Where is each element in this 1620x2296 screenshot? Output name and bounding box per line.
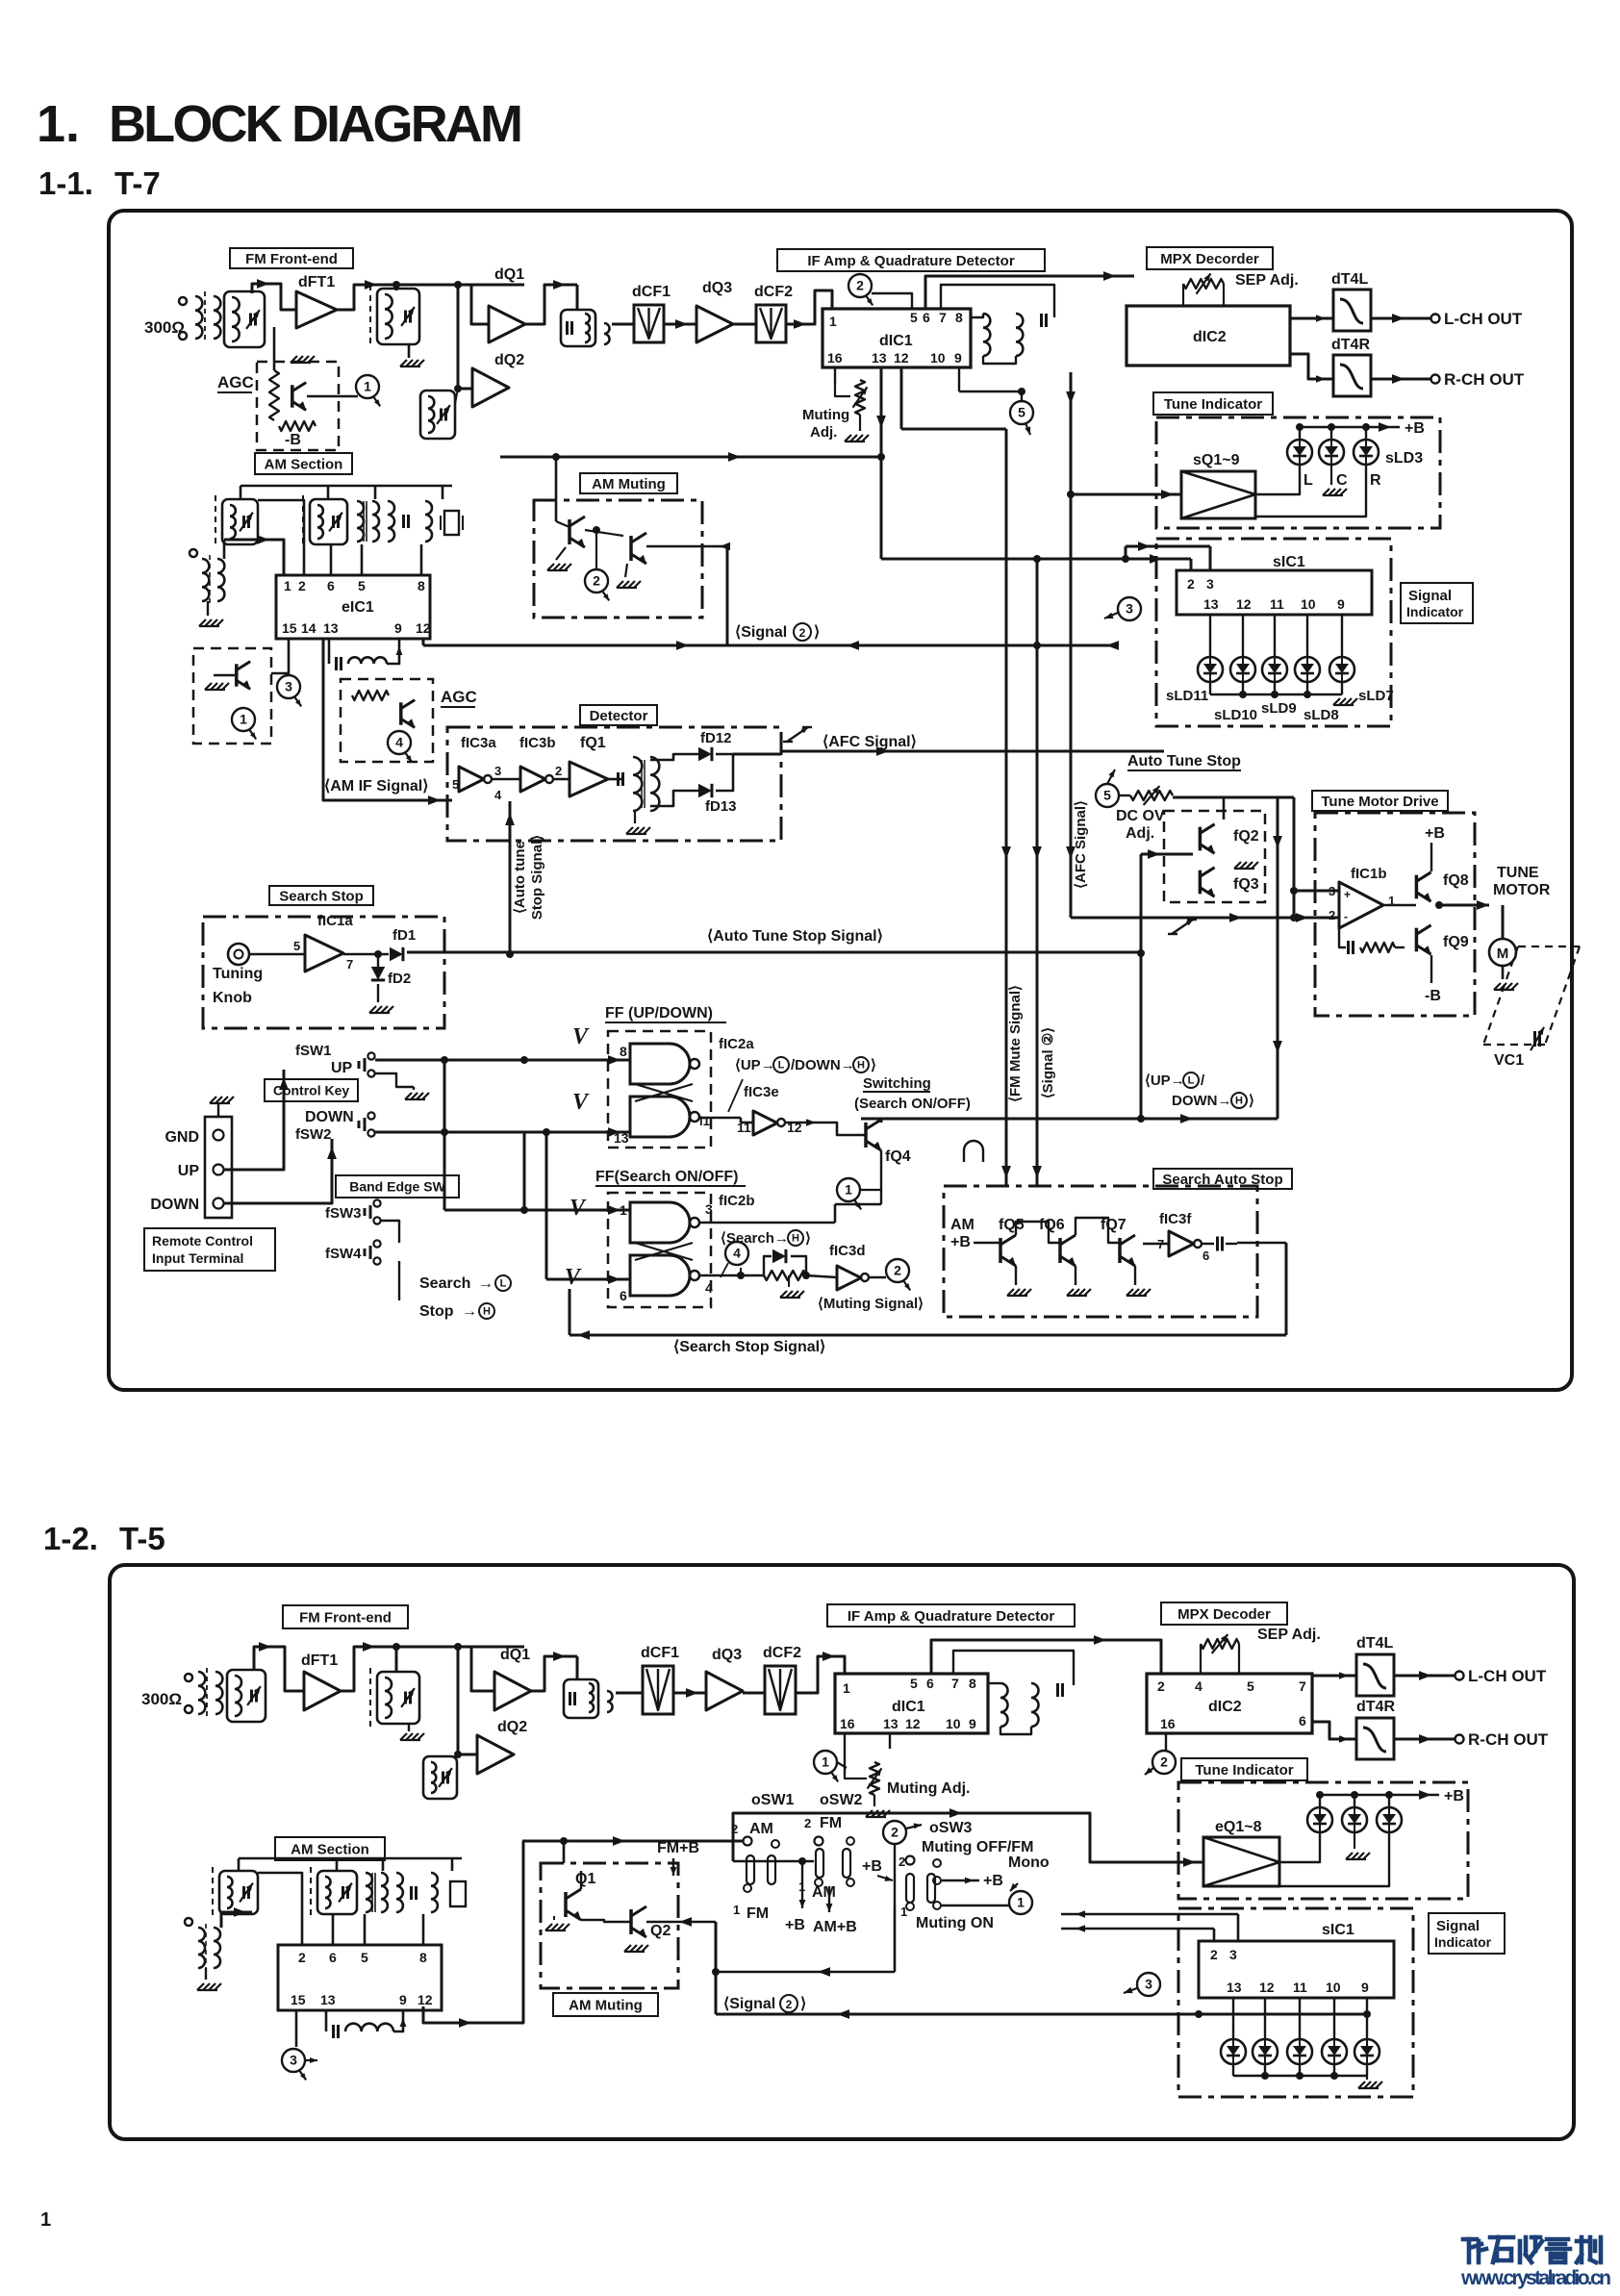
svg-text:13: 13	[1227, 1980, 1242, 1995]
svg-text:→: →	[478, 1275, 494, 1292]
svg-text:2: 2	[1329, 908, 1335, 922]
svg-text:AM Section: AM Section	[265, 456, 343, 472]
svg-text:8: 8	[969, 1676, 976, 1691]
svg-text:dFT1: dFT1	[298, 274, 335, 290]
svg-text:⟨Search Stop Signal⟩: ⟨Search Stop Signal⟩	[673, 1339, 825, 1355]
svg-text:6: 6	[327, 578, 335, 593]
svg-text:2: 2	[899, 1854, 905, 1869]
svg-text:9: 9	[954, 350, 962, 366]
svg-text:1: 1	[620, 1202, 627, 1218]
svg-text:Q1: Q1	[575, 1871, 595, 1887]
svg-text:13: 13	[320, 1992, 336, 2007]
svg-text:dQ3: dQ3	[712, 1647, 742, 1663]
svg-text:11: 11	[737, 1120, 751, 1135]
svg-text:13: 13	[872, 350, 887, 366]
svg-text:15: 15	[282, 620, 297, 636]
svg-text:⟨Signal: ⟨Signal	[735, 624, 787, 641]
svg-text:Search Stop: Search Stop	[279, 888, 364, 904]
svg-text:→: →	[462, 1303, 477, 1320]
svg-text:R: R	[1370, 472, 1381, 489]
svg-text:dQ3: dQ3	[702, 280, 732, 296]
svg-text:GND: GND	[165, 1129, 199, 1146]
svg-text:SEP Adj.: SEP Adj.	[1257, 1627, 1321, 1643]
svg-text:3: 3	[494, 764, 501, 778]
svg-text:⟨Muting Signal⟩: ⟨Muting Signal⟩	[818, 1296, 924, 1312]
svg-text:H: H	[792, 1233, 799, 1245]
svg-text:dIC1: dIC1	[879, 333, 913, 349]
svg-text:dFT1: dFT1	[301, 1653, 338, 1669]
svg-text:sLD3: sLD3	[1385, 450, 1423, 467]
svg-text:fQ9: fQ9	[1443, 934, 1469, 950]
svg-text:12: 12	[905, 1716, 921, 1731]
svg-text:FM Front-end: FM Front-end	[245, 251, 338, 267]
svg-text:fQ3: fQ3	[1233, 876, 1259, 893]
svg-text:2: 2	[804, 1816, 811, 1830]
svg-text:H: H	[1235, 1096, 1243, 1107]
svg-text:5: 5	[361, 1950, 368, 1965]
svg-text:Signal: Signal	[1408, 588, 1452, 604]
svg-text:AGC: AGC	[217, 373, 254, 391]
svg-text:L: L	[1304, 472, 1313, 489]
svg-text:6: 6	[620, 1288, 627, 1303]
svg-text:6: 6	[329, 1950, 337, 1965]
svg-text:12: 12	[418, 1992, 433, 2007]
svg-text:V: V	[572, 1024, 590, 1049]
svg-text:fQ1: fQ1	[580, 735, 606, 751]
svg-text:DC OV: DC OV	[1116, 808, 1165, 824]
svg-text:IF Amp & Quadrature Detector: IF Amp & Quadrature Detector	[848, 1608, 1054, 1625]
svg-text:UP: UP	[331, 1060, 353, 1076]
svg-text:sLD9: sLD9	[1261, 700, 1297, 717]
svg-text:Remote Control: Remote Control	[152, 1233, 253, 1249]
svg-text:13: 13	[614, 1130, 629, 1146]
svg-text:H: H	[857, 1060, 865, 1072]
svg-text:8: 8	[620, 1044, 627, 1059]
svg-text:AM: AM	[749, 1821, 773, 1837]
svg-text:dT4R: dT4R	[1331, 337, 1370, 353]
svg-text:Auto Tune Stop: Auto Tune Stop	[1127, 753, 1241, 770]
svg-text:fIC3f: fIC3f	[1159, 1211, 1192, 1227]
svg-text:5: 5	[910, 1676, 918, 1691]
svg-text:FF(Search ON/OFF): FF(Search ON/OFF)	[595, 1169, 738, 1185]
svg-text:3: 3	[705, 1201, 713, 1217]
svg-text:2: 2	[298, 1950, 306, 1965]
svg-text:12: 12	[1236, 596, 1252, 612]
svg-text:10: 10	[930, 350, 946, 366]
svg-text:2: 2	[298, 578, 306, 593]
svg-text:AM Section: AM Section	[291, 1841, 369, 1857]
svg-text:13: 13	[883, 1716, 899, 1731]
svg-text:Knob: Knob	[213, 990, 252, 1006]
svg-text:4: 4	[705, 1280, 713, 1296]
svg-text:5: 5	[452, 777, 459, 792]
svg-text:1-2.: 1-2.	[43, 1521, 98, 1556]
svg-text:Q2: Q2	[650, 1923, 671, 1939]
svg-text:DOWN: DOWN	[150, 1197, 199, 1213]
svg-text:MOTOR: MOTOR	[1493, 882, 1551, 898]
svg-text:2: 2	[786, 1998, 793, 2011]
svg-text:dCF1: dCF1	[632, 284, 671, 300]
svg-text:1: 1	[829, 314, 837, 329]
svg-text:fQ4: fQ4	[885, 1148, 911, 1165]
svg-text:sLD7: sLD7	[1358, 688, 1394, 704]
svg-text:10: 10	[946, 1716, 961, 1731]
svg-text:Adj.: Adj.	[1126, 825, 1154, 842]
svg-text:dCF2: dCF2	[754, 284, 793, 300]
svg-text:⟨AFC Signal⟩: ⟨AFC Signal⟩	[823, 734, 917, 750]
svg-text:5: 5	[1103, 788, 1111, 803]
svg-text:IF Amp & Quadrature Detector: IF Amp & Quadrature Detector	[807, 253, 1014, 269]
svg-text:dIC2: dIC2	[1193, 329, 1227, 345]
svg-text:1-1.: 1-1.	[38, 165, 93, 201]
svg-text:+B: +B	[983, 1873, 1003, 1889]
svg-text:T-5: T-5	[119, 1521, 165, 1556]
svg-text:5: 5	[1018, 405, 1025, 420]
svg-text:5: 5	[1247, 1678, 1254, 1694]
svg-text:R-CH OUT: R-CH OUT	[1468, 1730, 1549, 1749]
svg-text:sIC1: sIC1	[1273, 554, 1305, 570]
svg-text:2: 2	[894, 1263, 901, 1278]
svg-text:7: 7	[951, 1676, 959, 1691]
svg-text:4: 4	[1195, 1678, 1202, 1694]
svg-text:3: 3	[1145, 1977, 1152, 1992]
svg-text:5: 5	[293, 939, 300, 953]
svg-text:L: L	[500, 1278, 507, 1290]
svg-text:⟨FM Mute Signal⟩: ⟨FM Mute Signal⟩	[1007, 985, 1024, 1102]
svg-text:fQ5: fQ5	[999, 1217, 1025, 1233]
svg-text:FM+B: FM+B	[657, 1840, 699, 1856]
svg-text:9: 9	[394, 620, 402, 636]
svg-text:dQ1: dQ1	[494, 266, 524, 283]
svg-text:5: 5	[910, 310, 918, 325]
svg-text:⟩: ⟩	[871, 1057, 876, 1073]
svg-text:L: L	[778, 1060, 785, 1072]
svg-text:fSW2: fSW2	[295, 1126, 332, 1143]
svg-text:Tune Motor Drive: Tune Motor Drive	[1321, 794, 1438, 810]
svg-text:1: 1	[822, 1754, 829, 1770]
svg-text:3: 3	[1206, 576, 1214, 592]
svg-text:AM+B: AM+B	[813, 1919, 857, 1935]
svg-text:1.: 1.	[37, 95, 80, 153]
svg-text:⟩: ⟩	[805, 1230, 811, 1247]
svg-text:Stop: Stop	[419, 1303, 454, 1320]
svg-text:6: 6	[923, 310, 930, 325]
svg-text:MPX Decoder: MPX Decoder	[1177, 1606, 1271, 1623]
svg-text:fIC3a: fIC3a	[461, 735, 496, 751]
svg-text:Input Terminal: Input Terminal	[152, 1250, 243, 1266]
svg-text:dIC2: dIC2	[1208, 1699, 1242, 1715]
svg-text:+B: +B	[785, 1917, 805, 1933]
svg-text:Muting OFF/FM: Muting OFF/FM	[922, 1839, 1033, 1855]
svg-text:Search Auto Stop: Search Auto Stop	[1162, 1172, 1282, 1188]
svg-text:2: 2	[1187, 576, 1195, 592]
svg-text:4: 4	[733, 1246, 741, 1261]
svg-text:V: V	[572, 1090, 590, 1115]
svg-text:Mono: Mono	[1008, 1854, 1050, 1871]
svg-text:V: V	[565, 1265, 582, 1290]
svg-text:R-CH OUT: R-CH OUT	[1444, 370, 1525, 389]
svg-text:(Search ON/OFF): (Search ON/OFF)	[854, 1096, 971, 1112]
svg-text:dIC1: dIC1	[892, 1699, 925, 1715]
svg-text:7: 7	[1299, 1678, 1306, 1694]
svg-text:2: 2	[731, 1822, 738, 1836]
svg-text:1: 1	[1017, 1895, 1025, 1910]
svg-text:fIC2b: fIC2b	[719, 1193, 755, 1209]
svg-text:Muting ON: Muting ON	[916, 1915, 994, 1931]
svg-text:AM Muting: AM Muting	[592, 476, 666, 492]
svg-text:dQ1: dQ1	[500, 1647, 530, 1663]
svg-text:fQ6: fQ6	[1039, 1217, 1065, 1233]
svg-text:dCF1: dCF1	[641, 1645, 679, 1661]
svg-text:Indicator: Indicator	[1406, 604, 1464, 619]
svg-text:/DOWN→: /DOWN→	[791, 1057, 855, 1073]
svg-text:fIC3e: fIC3e	[744, 1084, 779, 1100]
svg-text:L-CH OUT: L-CH OUT	[1444, 310, 1523, 328]
svg-text:V: V	[570, 1196, 587, 1221]
svg-text:dT4R: dT4R	[1356, 1699, 1395, 1715]
svg-text:⟨UP→: ⟨UP→	[735, 1057, 775, 1073]
svg-text:Tune Indicator: Tune Indicator	[1164, 396, 1262, 413]
svg-text:oSW1: oSW1	[751, 1792, 795, 1808]
svg-text:L-CH OUT: L-CH OUT	[1468, 1667, 1547, 1685]
svg-text:AM: AM	[812, 1884, 836, 1901]
svg-text:oSW2: oSW2	[820, 1792, 863, 1808]
svg-text:Muting Adj.: Muting Adj.	[887, 1780, 971, 1797]
svg-text:2: 2	[1157, 1678, 1165, 1694]
svg-text:1: 1	[843, 1680, 850, 1696]
svg-text:Tune Indicator: Tune Indicator	[1195, 1762, 1293, 1779]
svg-text:FF (UP/DOWN): FF (UP/DOWN)	[605, 1005, 713, 1022]
svg-text:sIC1: sIC1	[1322, 1922, 1354, 1938]
svg-text:sLD8: sLD8	[1304, 707, 1339, 723]
svg-text:oSW3: oSW3	[929, 1820, 973, 1836]
svg-text:fIC3d: fIC3d	[829, 1243, 866, 1259]
svg-text:11: 11	[1270, 596, 1284, 612]
svg-text:sLD11: sLD11	[1166, 688, 1208, 704]
svg-text:dQ2: dQ2	[497, 1719, 527, 1735]
svg-text:+B: +B	[862, 1858, 882, 1875]
svg-text:fIC1b: fIC1b	[1351, 866, 1387, 882]
svg-text:Indicator: Indicator	[1434, 1934, 1492, 1950]
svg-text:FM: FM	[820, 1815, 842, 1831]
svg-text:Signal: Signal	[1436, 1918, 1480, 1934]
svg-text:⟨Signal ②⟩: ⟨Signal ②⟩	[1040, 1027, 1056, 1098]
svg-text:1: 1	[733, 1903, 740, 1917]
svg-text:DOWN: DOWN	[305, 1109, 354, 1125]
svg-text:4: 4	[395, 735, 403, 750]
svg-text:3: 3	[1126, 601, 1133, 617]
svg-text:16: 16	[840, 1716, 855, 1731]
svg-text:+: +	[1344, 888, 1351, 901]
svg-text:-B: -B	[1425, 988, 1441, 1004]
svg-text:1: 1	[284, 578, 291, 593]
svg-text:dT4L: dT4L	[1331, 271, 1368, 288]
svg-text:9: 9	[1337, 596, 1345, 612]
svg-text:4: 4	[494, 788, 502, 802]
svg-text:-B: -B	[285, 432, 301, 448]
svg-text:⟨Auto tune: ⟨Auto tune	[512, 841, 528, 914]
svg-text:14: 14	[301, 620, 316, 636]
svg-text:fD1: fD1	[392, 927, 416, 944]
svg-text:dT4L: dT4L	[1356, 1635, 1393, 1652]
svg-text:FM Front-end: FM Front-end	[299, 1609, 392, 1626]
svg-text:Tuning: Tuning	[213, 966, 263, 982]
svg-text:2: 2	[891, 1825, 899, 1840]
svg-text:+B: +B	[1405, 420, 1425, 437]
svg-text:7: 7	[939, 310, 947, 325]
svg-text:⟨AM IF Signal⟩: ⟨AM IF Signal⟩	[324, 778, 428, 795]
svg-text:16: 16	[1160, 1716, 1176, 1731]
svg-text:L: L	[1188, 1075, 1195, 1087]
svg-text:2: 2	[593, 573, 600, 589]
svg-text:2: 2	[1210, 1947, 1218, 1962]
svg-text:fD2: fD2	[388, 971, 411, 987]
svg-text:8: 8	[419, 1950, 427, 1965]
svg-text:6: 6	[1202, 1249, 1209, 1263]
svg-text:fSW3: fSW3	[325, 1205, 362, 1222]
svg-text:⟩: ⟩	[1249, 1093, 1254, 1109]
svg-text:+B: +B	[1444, 1788, 1464, 1804]
svg-text:5: 5	[358, 578, 366, 593]
svg-text:M: M	[1497, 946, 1509, 962]
svg-text:300Ω: 300Ω	[141, 1690, 182, 1708]
svg-text:+B: +B	[950, 1234, 971, 1250]
svg-text:AM Muting: AM Muting	[569, 1997, 643, 2013]
svg-text:T-7: T-7	[114, 165, 161, 201]
svg-text:⟩: ⟩	[814, 624, 820, 641]
svg-text:eQ1~8: eQ1~8	[1215, 1819, 1262, 1835]
svg-text:dCF2: dCF2	[763, 1645, 801, 1661]
svg-text:TUNE: TUNE	[1497, 865, 1539, 881]
svg-text:11: 11	[1293, 1980, 1307, 1995]
svg-text:⟨UP→: ⟨UP→	[1145, 1072, 1185, 1089]
svg-text:12: 12	[1259, 1980, 1275, 1995]
svg-text:2: 2	[799, 626, 806, 640]
svg-text:UP: UP	[178, 1163, 200, 1179]
svg-text:1: 1	[240, 712, 247, 727]
svg-text:AM: AM	[950, 1217, 975, 1233]
svg-text:9: 9	[1361, 1980, 1369, 1995]
svg-text:fD12: fD12	[700, 730, 732, 746]
svg-text:7: 7	[346, 957, 353, 971]
svg-text:1: 1	[845, 1182, 852, 1198]
svg-text:fSW4: fSW4	[325, 1246, 362, 1262]
svg-text:9: 9	[969, 1716, 976, 1731]
svg-text:1: 1	[900, 1905, 907, 1919]
svg-text:⟨Auto Tune Stop Signal⟩: ⟨Auto Tune Stop Signal⟩	[707, 928, 883, 945]
svg-text:C: C	[1336, 472, 1348, 489]
svg-text:fIC3b: fIC3b	[519, 735, 556, 751]
svg-text:8: 8	[418, 578, 425, 593]
svg-text:Switching: Switching	[863, 1075, 931, 1092]
svg-text:2: 2	[856, 278, 864, 293]
svg-text:MPX Decorder: MPX Decorder	[1160, 251, 1259, 267]
svg-text:BLOCK DIAGRAM: BLOCK DIAGRAM	[109, 95, 523, 153]
svg-text:Stop Signal⟩: Stop Signal⟩	[529, 835, 545, 920]
svg-text:8: 8	[955, 310, 963, 325]
svg-text:fQ2: fQ2	[1233, 828, 1259, 845]
svg-text:3: 3	[290, 2053, 297, 2068]
svg-text:fQ8: fQ8	[1443, 872, 1469, 889]
svg-text:H: H	[483, 1306, 491, 1318]
svg-text:dQ2: dQ2	[494, 352, 524, 368]
svg-text:16: 16	[827, 350, 843, 366]
svg-text:DOWN→: DOWN→	[1172, 1093, 1232, 1109]
svg-text:fIC2a: fIC2a	[719, 1036, 754, 1052]
svg-text:fQ7: fQ7	[1101, 1217, 1126, 1233]
svg-text:-: -	[1344, 910, 1348, 923]
svg-text:VC1: VC1	[1494, 1052, 1524, 1069]
svg-text:13: 13	[323, 620, 339, 636]
svg-text:FM: FM	[747, 1905, 769, 1922]
svg-text:1: 1	[798, 1880, 805, 1894]
svg-text:+B: +B	[1425, 825, 1445, 842]
svg-text:⟩: ⟩	[800, 1996, 806, 2012]
svg-text:10: 10	[1301, 596, 1316, 612]
svg-text:13: 13	[1203, 596, 1219, 612]
svg-text:2: 2	[1160, 1754, 1168, 1770]
svg-text:Adj.: Adj.	[810, 424, 837, 441]
svg-text:6: 6	[1299, 1713, 1306, 1728]
svg-text:Search: Search	[419, 1275, 470, 1292]
svg-text:www.crystalradio.cn: www.crystalradio.cn	[1460, 2267, 1611, 2289]
svg-text:⟨AFC Signal⟩: ⟨AFC Signal⟩	[1073, 800, 1089, 889]
svg-text:⟨Signal: ⟨Signal	[723, 1996, 775, 2012]
svg-text:sLD10: sLD10	[1214, 707, 1257, 723]
svg-text:i1: i1	[699, 1114, 710, 1128]
svg-text:3: 3	[1329, 884, 1335, 898]
svg-text:1: 1	[40, 2209, 51, 2231]
svg-text:9: 9	[399, 1992, 407, 2007]
svg-text:fD13: fD13	[705, 798, 737, 815]
svg-text:15: 15	[291, 1992, 306, 2007]
svg-text:Detector: Detector	[590, 708, 648, 724]
svg-text:eIC1: eIC1	[342, 599, 374, 616]
svg-text:3: 3	[1229, 1947, 1237, 1962]
svg-text:3: 3	[285, 679, 292, 694]
svg-text:12: 12	[894, 350, 909, 366]
svg-text:SEP Adj.: SEP Adj.	[1235, 272, 1299, 289]
svg-text:Muting: Muting	[802, 407, 849, 423]
svg-text:fIC1a: fIC1a	[317, 913, 353, 929]
svg-text:10: 10	[1326, 1980, 1341, 1995]
svg-text:12: 12	[416, 620, 431, 636]
svg-text:sQ1~9: sQ1~9	[1193, 452, 1240, 468]
svg-text:2: 2	[555, 764, 562, 778]
svg-text:fSW1: fSW1	[295, 1043, 332, 1059]
svg-text:1: 1	[364, 379, 371, 394]
svg-text:AGC: AGC	[441, 688, 477, 706]
svg-text:Band Edge SW: Band Edge SW	[349, 1179, 445, 1195]
svg-text:6: 6	[926, 1676, 934, 1691]
